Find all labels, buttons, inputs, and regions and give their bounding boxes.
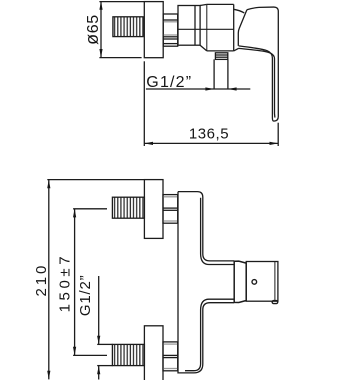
nut shading lines (view 1)	[164, 21, 177, 23]
svg-text:G1/2”: G1/2”	[77, 275, 94, 317]
dimension G1/2 extension top (view 2)	[97, 343, 112, 345]
handle square inner edge (view 2)	[274, 262, 276, 301]
cap shoulder curve	[234, 9, 245, 13]
dimension 136,5 extension line left	[143, 61, 145, 146]
dimension G1/2 leader upper segment (view 2)	[98, 276, 100, 344]
body main block top (view 1)	[207, 3, 234, 5]
body outline (view 2)	[178, 192, 234, 373]
dimension 136,5 arrow left	[144, 142, 153, 145]
svg-text:G1/2”: G1/2”	[146, 74, 192, 91]
dimension ø65 extension line top	[99, 1, 144, 3]
connector nut (view 1)	[163, 14, 178, 46]
body main block bottom (view 1)	[207, 50, 234, 52]
dimension 150±7 arrow up	[73, 209, 76, 218]
dimension 150±7 arrow down	[73, 347, 76, 356]
dimension 210 arrow down	[47, 371, 50, 380]
handle screw hole (view 2)	[252, 280, 257, 285]
dimension G1/2 lower segment (view 2)	[98, 366, 100, 380]
body section divider	[194, 6, 196, 46]
svg-text:ø65: ø65	[82, 14, 102, 45]
svg-text:150±7: 150±7	[56, 253, 73, 313]
dimension 150±7 extension line top	[73, 208, 107, 210]
body cone top	[200, 4, 207, 5]
dimension G1/2 leader line (view 1)	[146, 88, 250, 90]
body cone bottom	[200, 45, 207, 51]
step cap to bottom	[234, 48, 239, 51]
outlet thread collar (view 1)	[215, 53, 227, 60]
dimension ø65 line	[100, 2, 102, 58]
dimension G1/2 arrow right-pointing	[205, 87, 214, 90]
dimension G1/2 arrow down (view 2)	[97, 336, 100, 345]
nut top mid lines	[163, 207, 178, 209]
dimension ø65 arrow down	[99, 49, 102, 58]
dimension 136,5 arrow right	[270, 142, 279, 145]
dimension 210 line	[48, 180, 50, 380]
wall flange bottom (view 2)	[144, 326, 163, 380]
body rear section (view 1)	[178, 6, 200, 46]
lever front edge (view 1)	[238, 10, 247, 46]
threaded inlet nipple (view 1)	[113, 17, 143, 37]
dimension G1/2 extension bottom (view 2)	[97, 365, 112, 367]
nut chamfer lines (view 1)	[163, 19, 178, 21]
dimension 150±7 extension line bottom	[73, 354, 107, 356]
outlet pipe left edge	[213, 59, 215, 89]
dimension G1/2 arrow up (view 2)	[97, 366, 100, 375]
dimension 210 arrow up	[47, 180, 50, 189]
dimension 150±7 line	[74, 209, 76, 356]
nut bottom mid lines	[163, 354, 178, 356]
body centre line (view 1)	[178, 28, 234, 30]
cartridge ring (view 2)	[234, 261, 246, 302]
threaded nipple bottom (view 2)	[112, 344, 144, 365]
handle grip inner second line (view 1)	[239, 48, 275, 117]
dimension 210 extension line top	[47, 179, 144, 181]
wall flange top (view 2)	[144, 180, 163, 239]
connector nut top (view 2)	[163, 195, 178, 224]
handle square (view 2)	[246, 262, 278, 302]
connector nut bottom (view 2)	[163, 342, 178, 371]
dimension G1/2 arrow left-pointing	[228, 87, 237, 90]
dimension 136,5 extension line right	[277, 123, 279, 146]
handle top edge (view 1)	[247, 7, 278, 121]
nut bottom shading	[164, 343, 178, 345]
lever tip nub (view 2)	[272, 301, 278, 304]
nut top shading	[164, 196, 178, 198]
svg-text:210: 210	[33, 263, 50, 297]
dimension ø65 extension line bottom	[99, 57, 141, 59]
dimension ø65 arrow up	[99, 1, 102, 10]
dimension 136,5 line	[144, 142, 278, 144]
handle grip inner contour (view 1)	[239, 46, 273, 118]
outlet pipe right edge	[227, 59, 229, 89]
body inner highlight upper (view 2)	[201, 198, 235, 265]
wall flange (view 1)	[144, 2, 163, 58]
body main block right edge / cartridge cap	[233, 4, 235, 51]
svg-text:136,5: 136,5	[189, 126, 229, 143]
body cone tangent	[206, 4, 208, 51]
body inner highlight lower (view 2)	[185, 299, 234, 371]
threaded nipple top (view 2)	[112, 197, 144, 218]
